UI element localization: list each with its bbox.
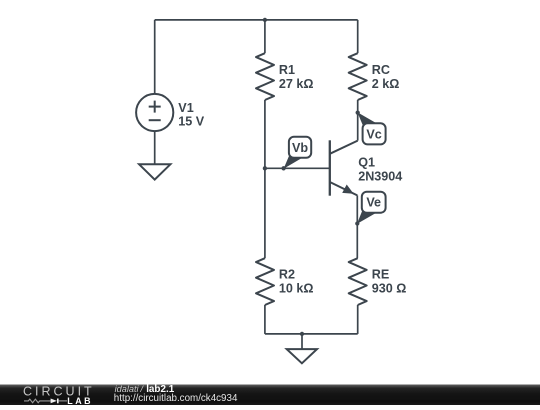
probe Vc xyxy=(357,112,385,144)
label R1 27 kΩ xyxy=(279,63,314,91)
svg-text:R1: R1 xyxy=(279,63,295,77)
svg-text:27 kΩ: 27 kΩ xyxy=(279,77,314,91)
svg-text:RC: RC xyxy=(372,63,390,77)
svg-text:LAB: LAB xyxy=(67,396,93,405)
svg-text:V1: V1 xyxy=(178,101,193,115)
resistor RE xyxy=(349,258,367,305)
wire bottom rail xyxy=(265,333,358,335)
svg-text:Vb: Vb xyxy=(292,141,308,155)
transistor Q1 xyxy=(330,140,358,195)
node base probe xyxy=(281,166,285,170)
wire V1 bottom xyxy=(154,131,156,164)
wire R1 top xyxy=(264,20,266,53)
label Q1 2N3904 xyxy=(358,155,402,183)
svg-text:930 Ω: 930 Ω xyxy=(372,282,407,296)
svg-text:15 V: 15 V xyxy=(178,114,205,128)
resistor R1 xyxy=(256,53,274,100)
label R2 10 kΩ xyxy=(279,268,314,296)
probe Vb xyxy=(284,137,312,169)
wire emitter xyxy=(356,195,358,258)
resistor RC xyxy=(349,53,367,100)
wire R2 bottom xyxy=(264,305,266,334)
svg-text:Vc: Vc xyxy=(366,127,381,141)
label RE 930 Ω xyxy=(372,268,407,296)
svg-text:http://circuitlab.com/ck4c934: http://circuitlab.com/ck4c934 xyxy=(114,393,238,404)
node ground junction xyxy=(300,332,304,336)
label V1 15 V xyxy=(178,101,205,128)
ground G2 xyxy=(287,349,317,363)
svg-text:Q1: Q1 xyxy=(358,155,375,169)
svg-text:RE: RE xyxy=(372,268,390,282)
wire V1 top xyxy=(154,20,156,94)
svg-text:Ve: Ve xyxy=(366,196,381,210)
svg-text:2 kΩ: 2 kΩ xyxy=(372,77,400,91)
label RC 2 kΩ xyxy=(372,63,400,91)
svg-text:2N3904: 2N3904 xyxy=(358,170,402,184)
wire collector xyxy=(357,100,359,141)
wire RC top xyxy=(357,20,359,53)
wire top rail xyxy=(155,19,358,21)
node collector Vc xyxy=(356,110,360,114)
logo resistor-diode mark xyxy=(24,399,67,403)
wire ground stub xyxy=(301,334,303,349)
voltage source V1 xyxy=(136,94,173,131)
svg-text:10 kΩ: 10 kΩ xyxy=(279,282,314,296)
resistor R2 xyxy=(256,258,274,305)
wire RE bottom xyxy=(357,305,359,334)
footer bar xyxy=(0,385,540,406)
node base junction xyxy=(263,166,267,170)
wire base xyxy=(265,167,330,169)
node emitter Ve xyxy=(355,221,359,225)
svg-text:R2: R2 xyxy=(279,268,295,282)
wire middle column xyxy=(264,100,266,258)
node top junction xyxy=(263,18,267,22)
ground G1 xyxy=(139,164,170,179)
probe Ve xyxy=(357,192,386,224)
